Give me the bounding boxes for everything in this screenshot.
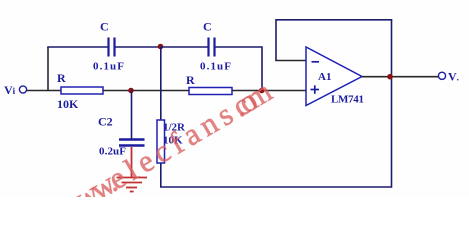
wire right vertical (output to bottom rail): [391, 20, 393, 188]
output terminal Vo: [438, 70, 459, 84]
resistor R3 1/2R 10K (vertical): [157, 120, 186, 163]
wire R3 to bottom rail: [160, 163, 162, 187]
wire R1 to R2: [103, 90, 189, 92]
capacitor C2 0.1uF: [200, 20, 231, 73]
wire C1 to node A: [116, 46, 161, 48]
wire top left segment: [47, 46, 107, 48]
svg-text:V.: V.: [448, 70, 459, 84]
svg-text:0.1uF: 0.1uF: [200, 61, 231, 73]
svg-text:LM741: LM741: [331, 94, 364, 106]
wire C2 to ground (red): [131, 147, 133, 177]
node C junction dot: [259, 88, 265, 94]
wire input to R1: [27, 90, 61, 92]
wire feedback to op-amp - input: [275, 60, 306, 62]
wire R2 to op-amp + input: [232, 90, 306, 92]
node A junction dot: [158, 44, 164, 50]
svg-text:R: R: [57, 71, 66, 85]
watermark www.elecfans.com: [52, 73, 278, 226]
svg-text:C: C: [203, 20, 212, 34]
svg-text:C2: C2: [98, 115, 113, 129]
capacitor C2 0.2uF: [98, 115, 145, 158]
input terminal Vi: [4, 83, 27, 97]
capacitor C2 0.2uF branch wire: [131, 91, 133, 139]
node D output junction dot: [387, 74, 393, 80]
wire branch up at x=48: [47, 47, 49, 91]
svg-text:10K: 10K: [57, 97, 79, 111]
wire node A to C2cap: [161, 46, 208, 48]
op-amp A1 LM741: [306, 47, 364, 106]
wire feedback left vertical: [275, 19, 277, 61]
node B junction dot: [128, 88, 134, 94]
svg-text:R: R: [186, 73, 195, 87]
capacitor C1 0.1uF: [93, 20, 124, 73]
svg-text:Vi: Vi: [4, 83, 16, 97]
resistor R1 10K: [57, 71, 103, 111]
svg-text:0.1uF: 0.1uF: [93, 61, 124, 73]
resistor R2 10K: [186, 73, 232, 95]
wire op-amp output: [362, 76, 439, 78]
wire C2cap to corner: [216, 47, 263, 88]
wire node A down through main wire to R3: [160, 47, 162, 120]
ground: [117, 178, 148, 192]
svg-text:C: C: [100, 20, 109, 34]
wire feedback top: [276, 19, 392, 21]
wire bottom rail: [160, 186, 392, 188]
svg-text:A1: A1: [318, 71, 331, 83]
